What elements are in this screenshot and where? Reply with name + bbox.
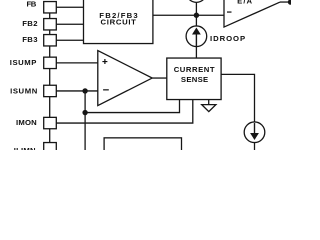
wire FB2/FB3 circuit to E/A [153, 14, 224, 16]
svg-text:FB3: FB3 [22, 35, 38, 44]
ground stub [208, 100, 210, 105]
E/A - sign [227, 11, 232, 13]
wire FB3 to FB2/FB3 circuit [56, 39, 83, 41]
wire FB2 to FB2/FB3 circuit [56, 23, 83, 25]
wire E/A output [280, 1, 292, 3]
wire IDROOP to current sense [195, 47, 197, 59]
wire top source to node [195, 2, 197, 26]
current source IDROOP [186, 26, 207, 47]
node dot E/A output [288, 0, 293, 5]
ground symbol [202, 105, 216, 112]
svg-text:FB: FB [27, 0, 37, 9]
wire current sense to sink source [221, 74, 254, 122]
wire IMON to current sense bottom [56, 100, 193, 124]
pin ILIMN [44, 143, 57, 154]
pin ISUMN [44, 85, 57, 96]
op-amp - sign [103, 89, 109, 91]
svg-text:ISUMN: ISUMN [10, 86, 38, 95]
node dot 2 [82, 110, 87, 115]
wire node2 to current sense bottom [85, 100, 179, 113]
block CURRENT SENSE [167, 58, 221, 100]
wire sink source down [254, 143, 256, 151]
svg-text:IDROOP: IDROOP [210, 34, 246, 43]
svg-text:IMON: IMON [16, 118, 37, 127]
svg-text:CIRCUIT: CIRCUIT [101, 18, 137, 27]
wire FB to FB2/FB3 circuit [56, 6, 83, 8]
node junction dot at IDROOP [194, 13, 199, 18]
block bottom (cut off) [104, 138, 181, 158]
svg-text:E/A: E/A [237, 0, 253, 5]
pin chain line [49, 13, 51, 143]
current source (bottom right, sink) [244, 122, 265, 143]
pin ISUMP [44, 57, 57, 68]
op-amp + sign [102, 12, 231, 90]
wire op-amp output to current sense [152, 77, 167, 79]
block FB2/FB3 CIRCUIT [84, 0, 153, 44]
op-amp E/A error amplifier (cut off at top) [224, 0, 280, 27]
svg-text:ISUMP: ISUMP [10, 58, 37, 67]
op-amp U1 current sense amplifier [98, 51, 152, 106]
svg-text:SENSE: SENSE [181, 75, 209, 84]
sink arrow [254, 123, 256, 134]
svg-text:CURRENT: CURRENT [174, 65, 215, 74]
current source (top, cut off) [186, 0, 207, 2]
pin FB2 [44, 19, 57, 30]
node dot 1 on ISUMN wire [82, 88, 87, 93]
wire ISUMP to op-amp + [56, 62, 98, 64]
pin FB3 [44, 35, 57, 46]
svg-text:ILIMN: ILIMN [14, 146, 36, 150]
pin IMON [44, 117, 57, 128]
IDROOP arrow [195, 34, 197, 47]
bus wire down from node 1 [84, 91, 86, 151]
pin FB [44, 2, 57, 13]
svg-text:FB2: FB2 [22, 19, 38, 28]
wire ISUMN to op-amp - [56, 90, 98, 92]
